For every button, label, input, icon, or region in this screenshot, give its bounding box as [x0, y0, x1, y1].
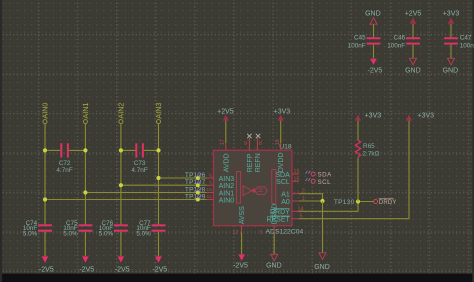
overline DRDY pin name — [274, 208, 290, 210]
test point pads TP126-TP129 — [196, 176, 200, 202]
left dark edge — [0, 0, 2, 282]
wire AIN3 column — [158, 124, 160, 225]
svg-text:+2V5: +2V5 — [405, 11, 422, 18]
bottom pins of U18 — [242, 226, 275, 233]
svg-text:15: 15 — [294, 169, 300, 175]
svg-text:AIN0: AIN0 — [41, 103, 50, 119]
wire C73 row — [121, 149, 136, 151]
bottom pin names — [239, 204, 279, 225]
junctions columns to TP rows — [43, 176, 161, 202]
wire AIN1 column — [84, 124, 86, 225]
svg-text:GND: GND — [266, 263, 282, 270]
svg-text:SCL: SCL — [276, 179, 290, 186]
capacitor C45 — [348, 35, 381, 50]
svg-text:C72: C72 — [59, 160, 71, 167]
capacitor C77 — [136, 220, 165, 238]
svg-text:R65: R65 — [363, 143, 375, 150]
wire RESET — [299, 121, 409, 219]
global label AIN2 — [116, 103, 125, 124]
left pins of U18 — [207, 178, 214, 200]
wire TP128 row — [85, 192, 206, 194]
no-connect X on REFN — [256, 134, 260, 138]
svg-text:C73: C73 — [134, 160, 146, 167]
svg-text:DGND: DGND — [272, 204, 279, 225]
svg-text:SCL: SCL — [318, 179, 332, 186]
power +3V3 at RESET — [406, 113, 434, 121]
wire TP126 row — [159, 177, 207, 179]
power +2V5 above C46 — [405, 11, 422, 38]
svg-text:TP130: TP130 — [334, 199, 355, 206]
svg-text:4.7nF: 4.7nF — [56, 167, 72, 174]
svg-text:AIN2: AIN2 — [116, 103, 125, 119]
right pin numbers — [294, 169, 305, 220]
svg-text:GND: GND — [405, 68, 421, 75]
junction DRDY/TP130 — [356, 199, 360, 203]
ground GND (A0/A1) — [314, 253, 330, 271]
svg-text:-2V5: -2V5 — [233, 263, 248, 270]
wire AIN0 column — [44, 124, 46, 225]
svg-text:A0: A0 — [281, 199, 290, 206]
wire TP129 row — [45, 199, 207, 201]
svg-text:5.0%: 5.0% — [63, 231, 78, 238]
top pins of U18 — [226, 138, 281, 150]
svg-text:+3V3: +3V3 — [418, 113, 435, 120]
svg-text:8: 8 — [259, 141, 262, 147]
svg-text:TP126: TP126 — [185, 172, 206, 179]
svg-text:TP127: TP127 — [185, 179, 206, 186]
top pin numbers — [220, 139, 281, 146]
wire AVSS down — [241, 233, 243, 255]
svg-text:3: 3 — [260, 230, 263, 236]
svg-text:A1: A1 — [281, 192, 290, 199]
power -2V5 at AVSS — [233, 254, 248, 269]
ground GND below C47 — [443, 58, 459, 74]
svg-text:AVSS: AVSS — [239, 206, 246, 224]
wire C72 row — [45, 149, 60, 151]
global label SCL — [306, 178, 332, 186]
svg-text:AIN1: AIN1 — [219, 190, 235, 197]
wire C76 to -2V5 — [120, 232, 122, 256]
power -2V5 (C77) — [152, 256, 167, 273]
power -2V5 (C74) — [39, 256, 54, 273]
svg-text:REFP: REFP — [247, 153, 254, 172]
svg-text:ADS122C04: ADS122C04 — [266, 229, 304, 236]
svg-text:AIN1: AIN1 — [81, 103, 90, 119]
power -2V5 (C76) — [115, 256, 130, 273]
svg-text:GND: GND — [314, 264, 330, 271]
svg-text:100nF: 100nF — [348, 42, 366, 49]
internal PGA bowtie — [243, 186, 255, 196]
svg-text:2.7kΩ: 2.7kΩ — [363, 150, 380, 157]
capacitor C73 — [131, 143, 147, 174]
svg-text:5.0%: 5.0% — [99, 231, 114, 238]
svg-text:+3V3: +3V3 — [443, 11, 460, 18]
svg-text:GND: GND — [443, 68, 459, 75]
TP pin 1 marks — [197, 174, 201, 199]
svg-text:C47: C47 — [460, 35, 472, 42]
global label AIN0 — [41, 103, 50, 124]
ground GND above C45 — [365, 11, 381, 38]
svg-text:-2V5: -2V5 — [39, 266, 54, 273]
wire C46 bottom — [412, 45, 414, 59]
wire C74 to -2V5 — [44, 232, 46, 256]
ground GND at DGND — [266, 254, 282, 269]
global label SDA — [306, 171, 333, 179]
no-connect X on REFP — [247, 134, 251, 138]
svg-text:12: 12 — [233, 230, 239, 236]
svg-text:10: 10 — [206, 187, 212, 193]
power -2V5 (C75) — [79, 256, 94, 273]
wire A0 — [299, 200, 323, 202]
svg-text:4.7nF: 4.7nF — [131, 167, 147, 174]
internal interface bar right — [272, 170, 276, 204]
global label DRDY — [374, 199, 397, 206]
svg-text:100nF: 100nF — [387, 42, 405, 49]
svg-text:AIN3: AIN3 — [154, 103, 163, 119]
svg-text:6: 6 — [209, 173, 212, 179]
svg-text:DRDY: DRDY — [379, 200, 397, 206]
right pin names — [266, 172, 290, 224]
wire DGND down — [273, 233, 275, 255]
svg-text:C45: C45 — [354, 35, 366, 42]
wire C75 to -2V5 — [84, 232, 86, 256]
power -2V5 below C45 — [368, 59, 383, 75]
svg-text:100nF: 100nF — [460, 42, 474, 49]
resistor R65 — [355, 140, 379, 157]
svg-text:REFN: REFN — [255, 153, 262, 172]
svg-text:5.0%: 5.0% — [23, 231, 38, 238]
left pin names — [219, 176, 235, 205]
capacitor C47 — [444, 35, 474, 50]
wire A1 to A0 column — [299, 194, 323, 201]
svg-text:9: 9 — [244, 141, 247, 147]
internal ADC hexagon — [255, 187, 267, 195]
capacitor C76 — [99, 220, 128, 238]
ground GND below C46 — [405, 58, 421, 74]
svg-text:-2V5: -2V5 — [152, 266, 167, 273]
svg-text:7: 7 — [209, 180, 212, 186]
op-amp/adc U18 body — [214, 150, 293, 226]
svg-text:GND: GND — [365, 11, 381, 18]
capacitor C72 — [56, 143, 72, 174]
right pins of U18 — [292, 174, 299, 219]
svg-text:-2V5: -2V5 — [115, 266, 130, 273]
svg-text:16: 16 — [294, 176, 300, 182]
svg-text:+3V3: +3V3 — [274, 109, 291, 116]
power +3V3 at R65 — [355, 113, 381, 121]
power +2V5 at AVDD — [217, 109, 234, 143]
capacitor C75 — [63, 220, 92, 238]
svg-text:TP129: TP129 — [185, 193, 206, 200]
svg-text:AVDD: AVDD — [223, 153, 230, 172]
bottom black band — [0, 274, 474, 282]
global label AIN1 — [81, 103, 90, 124]
junctions on C72/C73 row — [43, 148, 161, 152]
wire R65 top — [357, 121, 359, 141]
svg-text:5.0%: 5.0% — [136, 231, 151, 238]
svg-text:TP128: TP128 — [185, 186, 206, 193]
svg-text:AIN0: AIN0 — [219, 198, 235, 205]
svg-text:AIN2: AIN2 — [219, 183, 235, 190]
svg-text:C46: C46 — [394, 35, 406, 42]
top pin names — [223, 152, 285, 172]
capacitor C46 — [387, 35, 420, 50]
wire C45 bottom — [373, 45, 375, 59]
svg-text:SDA: SDA — [318, 172, 333, 179]
overline RESET pin name — [270, 215, 290, 217]
svg-text:11: 11 — [207, 194, 212, 200]
right dark edge — [472, 0, 474, 282]
svg-text:-2V5: -2V5 — [79, 266, 94, 273]
wire R65 bottom — [357, 157, 359, 201]
wire A0/A1 to GND — [322, 201, 324, 253]
power +3V3 above C47 — [443, 11, 460, 38]
svg-text:-2V5: -2V5 — [368, 68, 383, 75]
svg-text:+2V5: +2V5 — [217, 109, 234, 116]
left pin numbers — [206, 173, 212, 201]
wire DRDY — [299, 202, 374, 212]
wire C77 to -2V5 — [158, 232, 160, 256]
svg-text:DVDD: DVDD — [278, 152, 285, 172]
wire TP127 row — [121, 184, 207, 186]
junction A0/A1 — [320, 199, 324, 203]
bottom pin numbers — [233, 230, 263, 236]
wire AIN2 column — [120, 124, 122, 225]
internal mux bar left — [237, 172, 241, 204]
power +3V3 at DVDD — [274, 109, 291, 143]
svg-text:+3V3: +3V3 — [365, 113, 382, 120]
global label AIN3 — [154, 103, 163, 124]
wire C47 bottom — [450, 45, 452, 59]
capacitor C74 — [23, 220, 52, 238]
svg-text:AIN3: AIN3 — [219, 176, 235, 183]
